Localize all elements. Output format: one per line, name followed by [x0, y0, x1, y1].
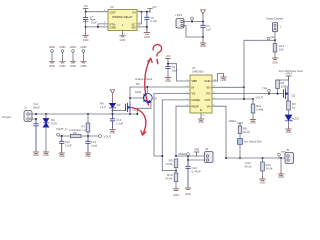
- resistor R8: [238, 126, 242, 134]
- wire U1 right pin GND jog: [212, 74, 224, 82]
- svg-text:GND: GND: [110, 131, 116, 135]
- svg-text:U2: U2: [110, 5, 114, 9]
- svg-text:VREG: VREG: [229, 119, 237, 123]
- svg-text:SN: SN: [131, 26, 135, 30]
- svg-text:C7: C7: [90, 15, 94, 19]
- svg-text:+5V: +5V: [166, 54, 171, 58]
- wire U2 bottom pin: [122, 31, 124, 34]
- svg-text:IN: IN: [133, 10, 136, 14]
- ground below Cin: [33, 150, 39, 154]
- svg-text:Aux Signal SNS: Aux Signal SNS: [244, 140, 262, 143]
- resistor R13 divider: [262, 157, 264, 159]
- svg-text:0.1uF: 0.1uF: [151, 20, 158, 23]
- wire IN rail right of U2: [137, 11, 150, 13]
- svg-text:GND: GND: [81, 64, 87, 68]
- transistor Q1 nmos: [284, 86, 289, 101]
- svg-text:Output: Output: [2, 115, 11, 119]
- wire U1 left pins 91 98 105: [154, 93, 190, 95]
- svg-text:EN: EN: [207, 85, 211, 89]
- wire SC drop: [137, 12, 141, 24]
- node junction at C7: [85, 11, 87, 13]
- svg-text:D2: D2: [117, 103, 121, 107]
- svg-text:56uF: 56uF: [33, 106, 40, 110]
- svg-text:J6: J6: [205, 147, 209, 151]
- svg-text:GND: GND: [33, 153, 39, 157]
- svg-text:VFB: VFB: [194, 148, 199, 152]
- svg-text:GND: GND: [70, 45, 76, 49]
- svg-text:Load: Load: [91, 143, 98, 147]
- TVS diode D1: [45, 113, 47, 115]
- capacitor C2: [166, 67, 170, 69]
- resistor R3: [287, 101, 291, 110]
- svg-text:74.8k: 74.8k: [165, 162, 173, 166]
- transistor Q2 nmos: [126, 103, 131, 111]
- power +5V flag at rail end: [148, 8, 153, 12]
- svg-text:PWDNC DELAY: PWDNC DELAY: [112, 15, 132, 19]
- power +5V flag left of U1: [166, 59, 171, 63]
- power flag VFB small: [194, 152, 199, 156]
- svg-text:PG: PG: [206, 92, 210, 96]
- svg-text:1k: 1k: [292, 106, 296, 110]
- wire VN row corner down: [212, 106, 226, 158]
- test point TP GND 2: [60, 45, 66, 68]
- svg-text:+3V3: +3V3: [175, 13, 182, 17]
- wire VOUT row: [212, 98, 253, 100]
- svg-text:VOUT_F: VOUT_F: [56, 127, 67, 131]
- svg-text:2.2uF: 2.2uF: [116, 121, 123, 125]
- svg-text:R6: R6: [73, 131, 77, 135]
- resistor R7 vertical: [87, 114, 89, 123]
- wire rail y87: [130, 86, 190, 88]
- LED D3: [285, 115, 292, 121]
- svg-text:GND: GND: [81, 45, 87, 49]
- ground below C7: [83, 34, 89, 38]
- svg-text:10k: 10k: [279, 47, 284, 51]
- svg-text:OUT: OUT: [205, 98, 211, 102]
- wire U1 bottom pin to ground: [200, 113, 202, 117]
- test point circle on 3V3: [191, 17, 194, 20]
- ground below R11: [250, 118, 256, 122]
- wire J1 pin2 to gnd column: [30, 119, 37, 120]
- svg-text:GND: GND: [43, 153, 49, 157]
- svg-text:Output Check: Output Check: [135, 77, 153, 81]
- test point on EN: [267, 37, 270, 40]
- capacitor C13 below rail: [110, 114, 114, 128]
- test point TP GND 4: [81, 45, 87, 68]
- resistor R2 pullup: [278, 79, 289, 81]
- svg-text:VBP: VBP: [192, 79, 198, 83]
- svg-text:GND: GND: [110, 26, 116, 30]
- svg-text:5.0V: 5.0V: [51, 122, 57, 126]
- svg-text:40.2k: 40.2k: [243, 130, 250, 134]
- svg-text:+5V: +5V: [152, 5, 157, 9]
- svg-text:GND: GND: [59, 154, 65, 158]
- capacitor C14: [86, 136, 90, 151]
- svg-text:GND: GND: [200, 44, 206, 48]
- svg-text:GND: GND: [198, 120, 204, 124]
- test point TP GND 3: [70, 45, 76, 68]
- svg-text:VREG: VREG: [178, 152, 186, 156]
- svg-text:TP4: TP4: [262, 87, 268, 91]
- svg-text:E: E: [200, 108, 202, 112]
- wire rail1: [176, 155, 208, 157]
- svg-text:2.49k: 2.49k: [256, 108, 264, 112]
- wire EN row: [212, 86, 244, 88]
- svg-text:VN: VN: [207, 104, 211, 108]
- ground below C8: [144, 31, 150, 35]
- wire SN link: [137, 26, 147, 28]
- svg-text:GND: GND: [286, 130, 292, 134]
- test point VOUT: [99, 135, 102, 138]
- test point near J5: [278, 153, 281, 156]
- svg-text:GND: GND: [49, 64, 55, 68]
- capacitor C10: [186, 156, 190, 186]
- wire C7 column: [85, 12, 87, 34]
- red question mark: [153, 45, 162, 56]
- ground below C1: [200, 41, 206, 45]
- svg-text:GND: GND: [221, 78, 227, 82]
- node at GND row: [85, 26, 87, 28]
- ground below LED: [286, 127, 292, 131]
- IC U1 regulator body: [190, 75, 212, 113]
- ground below R14: [272, 56, 278, 60]
- wire input rail: [30, 113, 138, 115]
- wire J2 top pin: [184, 21, 203, 23]
- svg-text:GND: GND: [185, 192, 191, 196]
- svg-text:24.9k: 24.9k: [165, 177, 173, 181]
- pin numbers U2: [104, 10, 141, 36]
- svg-text:LED: LED: [294, 117, 299, 121]
- wire base link: [130, 97, 144, 99]
- capacitor C1: [201, 22, 205, 38]
- svg-text:GND: GND: [144, 35, 150, 39]
- svg-text:100k: 100k: [281, 85, 288, 89]
- capacitor C8: [145, 12, 149, 31]
- svg-text:GND: GND: [49, 45, 55, 49]
- wire PTH row jog: [98, 24, 108, 27]
- svg-text:GND: GND: [60, 64, 66, 68]
- svg-text:10uF: 10uF: [91, 21, 97, 25]
- svg-text:OUT: OUT: [110, 10, 117, 14]
- ground below D1: [43, 150, 49, 154]
- power +3V3 flag: [286, 76, 291, 80]
- red annotation 2 arrow: [132, 108, 146, 136]
- resistor R14: [274, 40, 276, 43]
- red arrow up: [145, 59, 151, 106]
- svg-text:R5: R5: [136, 82, 140, 86]
- svg-text:Q1: Q1: [292, 94, 296, 98]
- diode D2: [109, 103, 115, 108]
- svg-text:Output Disable: Output Disable: [266, 17, 284, 21]
- pin numbers U1: [187, 79, 217, 117]
- svg-text:GND: GND: [250, 121, 256, 125]
- svg-text:ON: ON: [271, 36, 275, 39]
- wire to ground: [202, 37, 204, 41]
- wire EN from J4: [244, 32, 275, 99]
- capacitor C7 polarized: [83, 17, 87, 19]
- svg-text:GND: GND: [85, 154, 91, 158]
- svg-text:0.47uF: 0.47uF: [192, 170, 202, 174]
- svg-text:+3V3: +3V3: [285, 72, 292, 76]
- svg-text:100k: 100k: [135, 90, 142, 94]
- svg-text:GND: GND: [83, 38, 89, 42]
- resistor R10: [174, 173, 178, 182]
- wire gate from D2 node: [113, 109, 126, 111]
- svg-text:RESF: RESF: [192, 104, 200, 108]
- svg-text:LMR23610: LMR23610: [192, 71, 204, 74]
- svg-text:J1: J1: [24, 106, 27, 110]
- svg-text:40.2k: 40.2k: [245, 164, 252, 168]
- power net arrow flag above D2: [110, 90, 114, 104]
- wire to ground below: [280, 158, 282, 172]
- svg-text:GND: GND: [120, 38, 126, 42]
- svg-text:1uF: 1uF: [206, 28, 211, 32]
- svg-text:U1: U1: [192, 66, 196, 70]
- wire drain up to rail: [129, 87, 131, 114]
- svg-text:VOUT: VOUT: [256, 96, 264, 100]
- svg-text:GND: GND: [165, 79, 171, 83]
- wire GND row to U2: [86, 26, 108, 28]
- svg-text:2.2uF: 2.2uF: [65, 143, 72, 147]
- svg-text:MODE: MODE: [192, 98, 201, 102]
- ground below C2: [165, 76, 171, 80]
- wire PG row gate line: [212, 93, 284, 95]
- ground below C13: [110, 128, 116, 132]
- svg-text:+3.3: +3.3: [100, 105, 106, 109]
- ground below U2: [120, 33, 126, 37]
- resistor R11: [252, 99, 254, 104]
- svg-text:GND: GND: [60, 45, 66, 49]
- svg-text:+5V: +5V: [83, 4, 88, 8]
- power port VIN arrow flag: [201, 10, 206, 22]
- IC U2 load switch body: [108, 10, 137, 31]
- node rail to R6 drop: [87, 113, 89, 115]
- svg-text:24.9k: 24.9k: [266, 166, 273, 170]
- capacitor C12: [60, 136, 64, 151]
- wire J2 bottom pin loop: [184, 26, 203, 38]
- svg-text:GND: GND: [173, 193, 179, 197]
- svg-text:GND: GND: [204, 79, 210, 83]
- svg-text:VOUT: VOUT: [104, 135, 112, 139]
- test point TP GND 1: [49, 45, 55, 68]
- svg-text:VS: VS: [192, 92, 196, 96]
- wire bottom sense rail: [226, 157, 287, 159]
- test point on PG: [268, 89, 271, 92]
- resistor R6 horizontal: [71, 134, 82, 137]
- svg-text:GND: GND: [260, 180, 266, 184]
- svg-text:IN: IN: [192, 85, 195, 89]
- svg-text:GND: GND: [70, 64, 76, 68]
- wire OUT rail left of U2: [86, 11, 108, 13]
- svg-text:R7: R7: [81, 125, 85, 129]
- svg-text:Load Filter = 0: Load Filter = 0: [69, 128, 86, 132]
- svg-text:J5: J5: [286, 148, 290, 152]
- ground below C14: [85, 151, 91, 155]
- net cross ref blue box Aux Signal SNS: [238, 139, 243, 145]
- ground below C12: [59, 151, 65, 155]
- transistor Q3 npn: [143, 94, 152, 103]
- svg-text:GND: GND: [278, 175, 284, 179]
- svg-text:GND: GND: [272, 61, 278, 65]
- connector J4: [272, 23, 277, 32]
- resistor R9: [174, 159, 178, 168]
- svg-text:10uF: 10uF: [172, 68, 179, 72]
